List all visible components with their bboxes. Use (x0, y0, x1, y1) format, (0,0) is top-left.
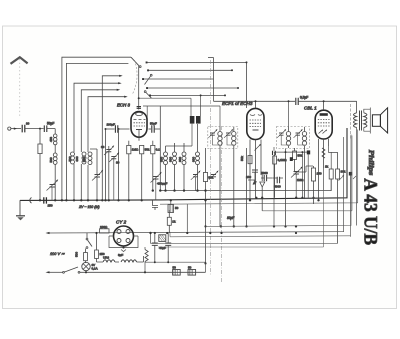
wire: dots on y233 (186, 232, 297, 234)
resistor: R2 below ECH3 (140, 145, 150, 201)
wire: gang dash link vertical x210 (209, 60, 211, 275)
svg-text:CY 2: CY 2 (116, 220, 127, 225)
transformer: T1 secondary (364, 109, 371, 131)
svg-text:UR3: UR3 (103, 256, 109, 260)
resistor: R cathode CBL1 (311, 166, 321, 204)
trimmer: AVC pair right (209, 170, 219, 179)
wire: v118 (117, 129, 119, 202)
wire: switch feeder y75.8 (101, 75, 123, 202)
wire: v160 (159, 106, 161, 192)
wire: second bus (160, 130, 358, 205)
svg-text:1k: 1k (325, 165, 329, 169)
wire: CBL1 anode riser (323, 100, 325, 110)
svg-text:50pF: 50pF (47, 121, 54, 125)
svg-text:1k: 1k (172, 220, 176, 224)
capacitor: 0.5uF on HT line (296, 96, 357, 106)
resistor: 0.1M detector load (273, 152, 288, 198)
capacitor: electrolytic 50 b (188, 265, 196, 275)
svg-text:Philips: Philips (367, 150, 375, 176)
trimmer: IF1 secondary (224, 129, 233, 138)
resistor: screen feed Rb (336, 152, 346, 243)
wire: third bus segment (152, 179, 331, 210)
svg-text:A 43 U/B: A 43 U/B (360, 178, 380, 245)
transformer: IF1 can (dashed) (208, 127, 238, 149)
wire: dash link near transformer (350, 104, 352, 140)
coil: IF2 secondary winding (298, 127, 307, 148)
svg-text:30: 30 (116, 161, 120, 165)
trimmer: padder 30pF a (101, 145, 114, 202)
resistor: R on v205 (203, 148, 213, 265)
svg-text:1MΩ: 1MΩ (297, 178, 304, 182)
coil: L5 (82, 152, 92, 202)
svg-text:100: 100 (246, 175, 251, 179)
wire: screen link (329, 146, 338, 169)
wire: gang dash link vertical x221 (221, 126, 223, 283)
svg-text:50: 50 (175, 206, 179, 210)
svg-text:100pF: 100pF (107, 123, 116, 127)
coil: L9 (191, 124, 199, 192)
speaker: LS1 (370, 108, 387, 134)
resistor: surge 500ohm (75, 249, 88, 264)
svg-text:50k: 50k (145, 148, 150, 152)
resistor: zigzag smoothing (144, 247, 148, 273)
coil: L7 (168, 146, 176, 192)
ground (16, 200, 25, 220)
wire: vertical v55 antenna coil line (54, 129, 56, 202)
svg-text:8μF: 8μF (118, 253, 123, 257)
svg-text:453: 453 (49, 137, 53, 142)
tube: CY2 label (116, 220, 127, 225)
title: Philips (367, 150, 375, 176)
wire: mains heater line y233 (46, 137, 344, 234)
coil: L4 (75, 152, 86, 202)
tube: CBL1 envelope U3 (315, 110, 332, 139)
svg-text:50k: 50k (240, 156, 244, 161)
svg-text:80μF: 80μF (227, 216, 235, 220)
trimmer: IF2 primary (277, 129, 286, 138)
transformer: T1 core (360, 111, 362, 131)
resistor: zigzag grid stopper (322, 148, 325, 190)
svg-text:CBL 1: CBL 1 (304, 106, 317, 111)
trimmer: padder 30pF b (109, 152, 120, 200)
tube: ECH3 label (117, 103, 130, 108)
wire: nested y247 (158, 190, 324, 247)
antenna terminal (8, 127, 21, 130)
capacitor: blob near speaker lines (349, 172, 356, 237)
wire: riser x205.5 (205, 263, 207, 272)
capacitor: blob junction a (307, 150, 310, 197)
switch: wave-change contact arc S1 (133, 60, 153, 98)
svg-text:000: 000 (168, 157, 172, 162)
label: heater bus (78, 205, 100, 209)
svg-text:50pF: 50pF (150, 121, 157, 125)
capacitor: below bus 50uF (168, 199, 179, 212)
trimmer: oscillator padder near L2 (47, 179, 59, 200)
wire: IF2 top feed (288, 100, 290, 127)
transformer: output T1 primary (354, 101, 357, 225)
wire: nested y242.5 (149, 232, 337, 244)
resistor: mains dropper on y233 (100, 225, 110, 233)
wire: ECF1 anode to HT line (214, 100, 296, 108)
coil: L2 (500) (49, 153, 57, 164)
svg-text:5000: 5000 (274, 185, 281, 189)
jack: pickup connector (252, 174, 265, 211)
wire: detector line y152 (274, 151, 309, 153)
wire: CY2 cathode loop (109, 236, 138, 257)
svg-text:0,1A: 0,1A (92, 267, 98, 271)
resistor: 1k hanging x169 (167, 210, 176, 233)
wire: sub line y260 (145, 261, 206, 263)
wire: IF1 drops (220, 106, 235, 228)
svg-text:50k: 50k (298, 154, 303, 158)
coil: L6 mid bank (159, 146, 167, 192)
wire: nested y236.6 (170, 232, 351, 237)
potentiometer: volume with arrow (291, 166, 304, 199)
wire: mains bottom line y272 (46, 267, 206, 273)
wire: riser to osc grid (143, 106, 220, 126)
wire: nested dots y226 (295, 199, 305, 228)
svg-text:200: 200 (82, 157, 86, 162)
svg-text:30: 30 (26, 121, 30, 125)
svg-text:150: 150 (48, 204, 53, 208)
resistor: barretter scallops b (121, 256, 144, 262)
lamp: dial 6V 0.1A (82, 262, 98, 272)
trimmer: AVC pair left (191, 170, 201, 190)
capacitor: ECH3 top cap (137, 107, 141, 109)
wire: AF line to CBL1 grid (273, 166, 313, 178)
svg-text:100Ω: 100Ω (100, 225, 108, 229)
resistor: antenna leak on x=40 (38, 128, 42, 202)
wire: CBL1 pin drops (317, 139, 328, 202)
capacitor: ECH3 grid 100pF (106, 123, 130, 133)
capacitor: filter 40uF b (159, 233, 171, 262)
svg-text:500: 500 (68, 156, 72, 161)
coil: IF1 secondary winding (227, 127, 236, 149)
wire: right nested return lines (206, 135, 352, 227)
wire: switch feeder y89.8 (81, 89, 120, 152)
svg-text:0,1MΩ: 0,1MΩ (278, 158, 288, 162)
svg-text:30k: 30k (341, 170, 346, 174)
svg-text:ECH 3: ECH 3 (117, 103, 130, 108)
svg-text:ECF1 of ECH3: ECF1 of ECH3 (222, 101, 253, 106)
tube: ECF1 envelope U2 (247, 108, 264, 139)
wire: drop x187.3 (186, 204, 188, 232)
wire: IF2 drops (284, 148, 304, 228)
title: A 43 U/B (360, 178, 380, 245)
resistor: 250ohm (95, 232, 105, 262)
wire: nested top corner 1 (61, 57, 139, 201)
tube: ECF1 label (222, 101, 253, 106)
wire: switch to ECH3 grid riser (138, 66, 140, 110)
transformer: IF2 can (dashed) (277, 127, 310, 149)
svg-text:1MΩ: 1MΩ (132, 148, 139, 152)
svg-text:110 V ≂: 110 V ≂ (50, 251, 65, 256)
svg-text:500: 500 (75, 252, 79, 257)
tube: CBL1 label (304, 106, 317, 111)
trimmer: IF1 primary (208, 129, 217, 138)
coil: L1 (453) (49, 134, 57, 145)
coil: L3 (68, 152, 75, 202)
svg-text:40μF: 40μF (159, 246, 166, 250)
capacitor: AF coupling 5000 (261, 171, 273, 181)
wire: v105 (104, 128, 106, 202)
wire: v302 (301, 151, 303, 199)
choke: filter below bus (154, 232, 169, 242)
svg-text:50: 50 (173, 265, 177, 269)
wire: switch feeder y96.7 (88, 96, 128, 152)
svg-text:0,5μF: 0,5μF (300, 96, 308, 100)
svg-text:30: 30 (101, 145, 105, 149)
svg-text:2V ~ 110 (M): 2V ~ 110 (M) (78, 205, 100, 209)
capacitor: filter 40uF a (152, 233, 158, 262)
trimmer: on v97 (92, 170, 103, 202)
resistor: R3 below ECH3 (151, 141, 161, 192)
trimmer: 4..20 osc (151, 172, 168, 201)
resistor: screen feed Ra (325, 165, 333, 191)
label: 80uF (227, 216, 235, 220)
capacitor: electrolytic 50 a (173, 265, 181, 275)
coil: L8 (178, 146, 186, 192)
capacitor: 5000 detector to CBL1 (274, 177, 281, 189)
resistor: barretter scallops a (97, 256, 120, 263)
tube: CY2 rectifier U4 (109, 226, 138, 246)
trimmer: ECF1 cathode arrow (255, 144, 262, 151)
wire: riser x213 from switch row to anode line (208, 58, 214, 102)
resistor: R AF load (293, 148, 303, 172)
capacitor: blob junction b (290, 157, 293, 161)
wire: bus dots detector (255, 197, 314, 199)
wire: switch feeder y83.2 (74, 82, 122, 152)
svg-text:50: 50 (188, 265, 192, 269)
antenna arrow (11, 57, 28, 116)
wire: ECF1 pin drops (245, 140, 261, 228)
switch: mains selector (86, 233, 92, 248)
capacitor: antenna series (22, 125, 43, 133)
svg-text:150: 150 (317, 172, 322, 176)
resistor: R cathode ECF1 (240, 156, 252, 164)
trimmer: IF2 secondary (294, 129, 303, 138)
wire: v97 trimmer branch (90, 149, 97, 174)
capacitor: 50pF coupling (26, 121, 55, 132)
wire: nested top corner 2 (65, 63, 128, 201)
svg-text:000: 000 (191, 157, 195, 162)
coil: IF1 primary winding (213, 127, 223, 149)
node: chassis jack on ground bus (30, 198, 32, 204)
svg-text:000: 000 (75, 156, 79, 161)
tube: ECH3 envelope U1 (131, 112, 147, 141)
svg-text:0.1: 0.1 (156, 148, 161, 152)
resistor: R1 below ECH3 (127, 141, 139, 202)
capacitor: diode filter bars (273, 147, 276, 228)
svg-text:500: 500 (49, 157, 53, 162)
capacitor: detector 100pF (246, 170, 258, 180)
svg-text:000: 000 (178, 157, 182, 162)
label: mains voltage (50, 251, 65, 256)
wire: field coil return y210.8 (262, 136, 352, 211)
coil: osc coil pair solid cores (138, 94, 202, 146)
capacitor: ECH3 osc grid 50pF (149, 121, 161, 133)
wire: switch lines to right bank (144, 61, 248, 108)
wire: main ground bus (20, 128, 347, 208)
svg-text:000: 000 (159, 157, 163, 162)
coil: IF2 primary winding (281, 127, 290, 148)
